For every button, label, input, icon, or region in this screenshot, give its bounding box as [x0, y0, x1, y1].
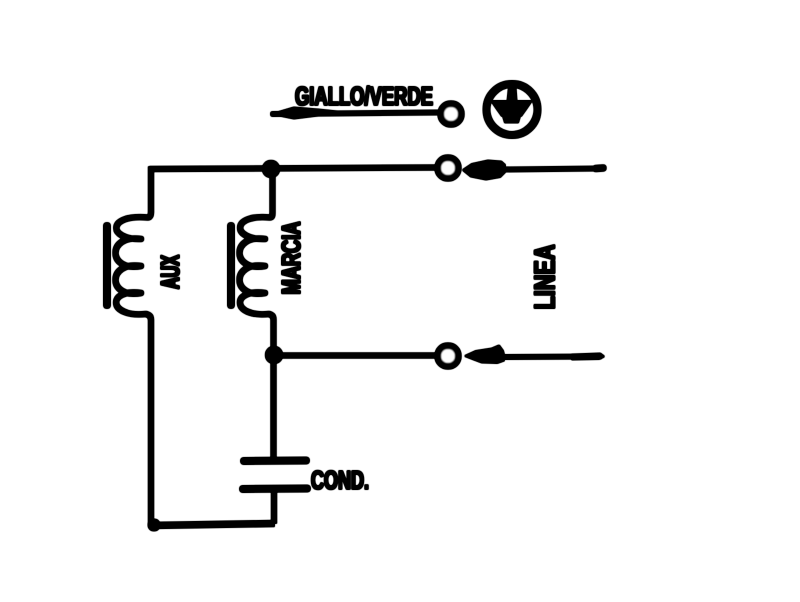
terminal T3	[439, 347, 458, 366]
arrow on L2 (points left)	[465, 346, 604, 364]
corner blob bottom-left	[149, 520, 160, 531]
wire: giallo/verde ground lead	[273, 113, 437, 115]
junction dot J1	[263, 161, 279, 177]
capacitor COND. bottom plate	[243, 486, 307, 493]
capacitor COND. top plate	[244, 458, 306, 465]
wire: line L2 (second horizontal)	[274, 353, 437, 358]
svg-text:LINEA: LINEA	[530, 244, 562, 309]
wire: capacitor to bottom line	[272, 489, 277, 523]
earth ground symbol in circle	[487, 84, 538, 135]
svg-text:GIALLO/VERDE: GIALLO/VERDE	[295, 81, 433, 111]
left branch wire + auxiliary winding AUX (4 scallop loops)	[116, 167, 152, 525]
AUX core bar	[104, 226, 110, 305]
arrow on L1 (points left)	[463, 161, 603, 180]
junction dot J2	[266, 347, 282, 363]
MARCIA core bar	[228, 226, 234, 305]
middle branch wire + main winding MARCIA (4 scallop loops), down to capacitor	[240, 169, 274, 457]
wire: bottom horizontal line	[150, 524, 274, 526]
wire: line L1 (top horizontal)	[150, 168, 437, 170]
terminal T1 (ground wire terminal)	[442, 105, 461, 124]
arrowhead on ground lead	[272, 108, 342, 119]
svg-text:MARCIA: MARCIA	[276, 221, 306, 294]
svg-text:COND.: COND.	[311, 465, 369, 495]
svg-text:AUX: AUX	[155, 255, 185, 289]
terminal T2	[439, 159, 458, 178]
